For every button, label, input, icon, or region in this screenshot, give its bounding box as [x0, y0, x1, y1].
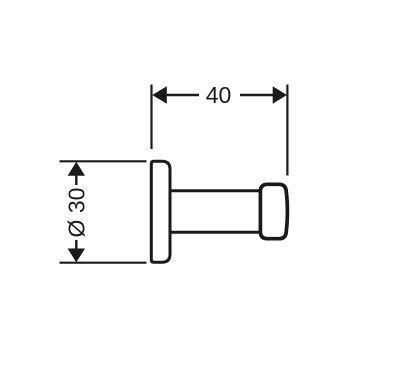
svg-text:Ø 30: Ø 30	[64, 188, 90, 238]
svg-text:40: 40	[206, 82, 232, 108]
